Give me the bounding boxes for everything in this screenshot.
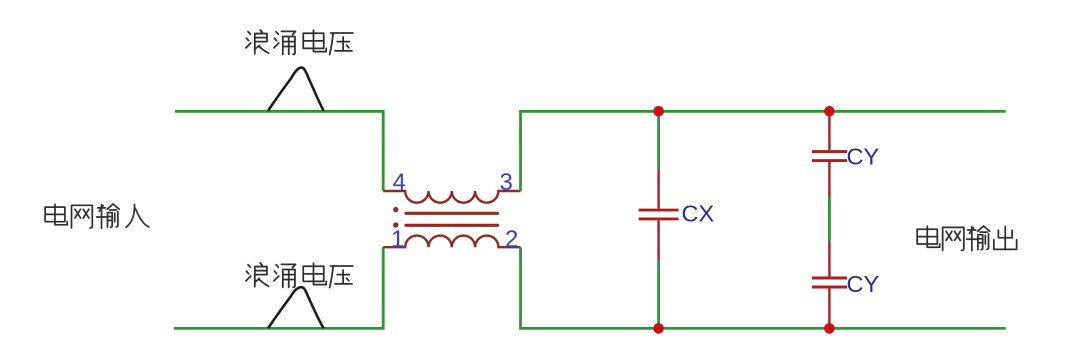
junction dot: node bottom CX — [653, 323, 664, 334]
wire: CX upper stub — [657, 111, 660, 169]
surge bell (top) — [268, 68, 324, 111]
transformer T1 bottom winding (pin 1 to pin 2) — [383, 236, 520, 248]
wire: CY middle segment — [828, 197, 831, 241]
capacitor CX — [639, 169, 679, 260]
svg-text:CY: CY — [847, 144, 880, 170]
wire W1: input line L, top-left elbow — [175, 111, 383, 191]
svg-text:CY: CY — [847, 271, 880, 297]
junction dot: node top CY — [824, 106, 835, 117]
wire: CX lower stub — [657, 260, 660, 328]
svg-text:4: 4 — [393, 169, 406, 196]
label 电网输入 — [45, 204, 149, 228]
wire W3: output line top elbow — [521, 111, 1006, 191]
transformer T1 top winding (pin 4 to pin 3) — [383, 191, 520, 203]
transformer T1 polarity dot (top) — [393, 207, 398, 212]
svg-text:1: 1 — [391, 226, 404, 253]
label 电网输出 — [917, 226, 1016, 251]
transformer T1 polarity dot (bottom) — [393, 222, 398, 227]
surge bell (bottom) — [268, 287, 324, 328]
transformer T1 core bar (lower) — [406, 224, 498, 227]
capacitor CY2 (lower) — [812, 241, 847, 328]
junction dot: node top CX — [653, 106, 664, 117]
wire W2: input line N, bottom-left elbow — [174, 247, 383, 328]
svg-text:CX: CX — [682, 200, 715, 226]
transformer T1 core bar (upper) — [406, 212, 498, 215]
label 浪涌电压 (bottom) — [246, 263, 353, 288]
svg-text:2: 2 — [505, 226, 518, 253]
svg-text:3: 3 — [500, 169, 513, 196]
junction dot: node bottom CY — [824, 323, 835, 334]
wire W4: output line bottom elbow — [521, 247, 1006, 328]
label 浪涌电压 (top) — [246, 30, 353, 55]
capacitor CY1 (upper) — [812, 111, 847, 197]
